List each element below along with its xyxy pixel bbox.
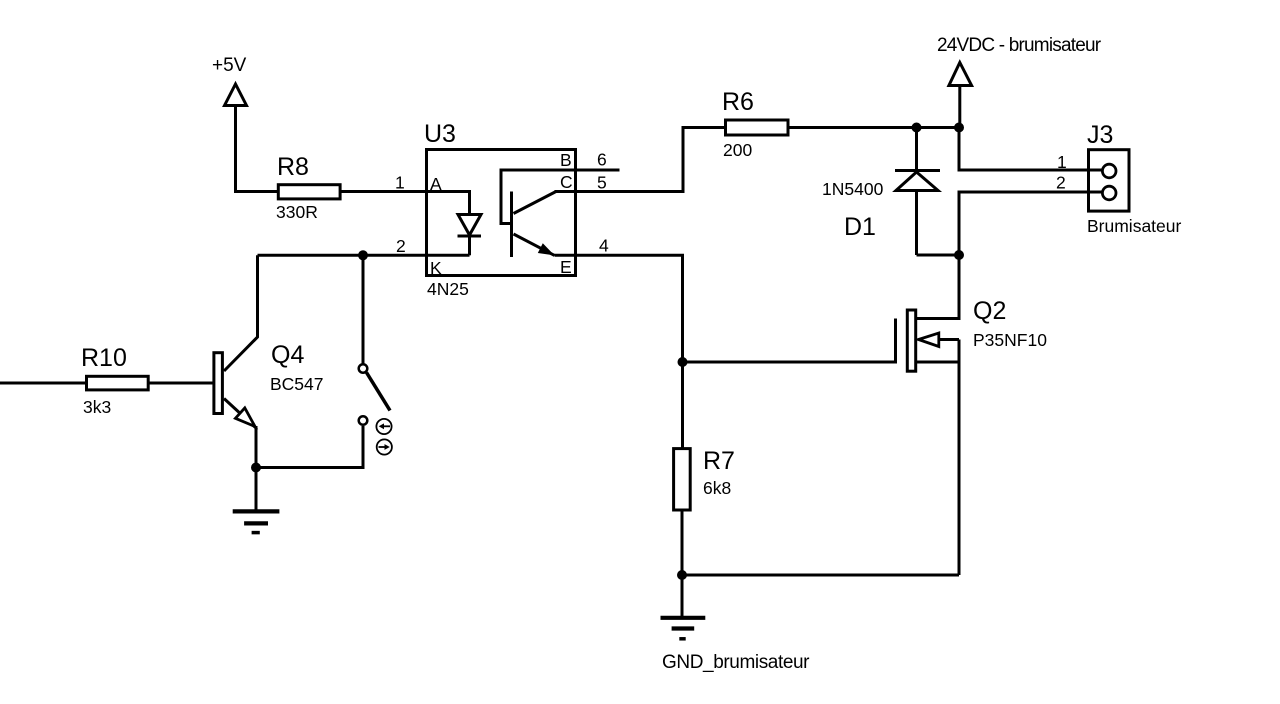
junction dot	[954, 250, 964, 260]
wire emitter node to ground	[255, 468, 258, 510]
wire R7 to ground rail	[681, 509, 684, 616]
emitter arrowhead	[538, 243, 555, 255]
svg-text:24VDC - brumisateur: 24VDC - brumisateur	[937, 35, 1102, 56]
svg-text:+5V: +5V	[212, 55, 247, 76]
svg-text:1: 1	[1057, 152, 1067, 172]
wire input to R10	[0, 382, 88, 385]
transistor Q4 base bar	[214, 353, 223, 414]
svg-text:R6: R6	[722, 88, 754, 116]
switch lever	[367, 373, 391, 411]
junction dot gate node	[678, 357, 688, 367]
U3 phototransistor collector	[514, 192, 557, 214]
Q4 emitter arrowhead	[235, 408, 255, 427]
resistor R8	[278, 185, 340, 199]
wire U3 pin 2 / K rail	[258, 254, 470, 257]
svg-text:1: 1	[395, 173, 405, 193]
junction dot ground rail	[677, 570, 687, 580]
resistor R6	[726, 120, 789, 135]
switch wire to emitter rail	[258, 426, 363, 468]
J3 pad circle 2	[1102, 186, 1116, 200]
svg-text:6: 6	[597, 150, 607, 170]
J3 pad circle 1	[1102, 164, 1116, 178]
junction dot K rail / switch	[358, 250, 368, 260]
switch SW1 wire from K rail	[362, 255, 365, 363]
U3 phototransistor base loop (pin 6 / B)	[501, 170, 620, 224]
svg-text:BC547: BC547	[270, 374, 324, 394]
U3 phototransistor base bar	[510, 192, 513, 258]
junction dot emitter node	[251, 463, 261, 473]
switch actuator arrow circle left	[376, 419, 391, 434]
wire R8 to U3 pin 1	[342, 190, 427, 193]
svg-text:B: B	[560, 150, 572, 170]
Q4 emitter wire down	[255, 426, 258, 469]
svg-text:330R: 330R	[276, 202, 318, 222]
svg-text:R7: R7	[703, 447, 735, 475]
bottom ground rail wire	[682, 574, 959, 577]
Q4 emitter	[224, 399, 256, 429]
svg-text:P35NF10: P35NF10	[973, 330, 1047, 350]
svg-text:U3: U3	[424, 120, 456, 148]
svg-text:3k3: 3k3	[83, 397, 111, 417]
mosfet Q2	[896, 255, 960, 575]
svg-text:200: 200	[723, 140, 752, 160]
resistor R10	[87, 376, 149, 390]
svg-text:5: 5	[597, 173, 607, 193]
wire to J3 pin 2	[959, 192, 1105, 256]
ground symbol GND_brumisateur	[661, 618, 706, 639]
svg-text:K: K	[430, 258, 442, 278]
svg-text:Q4: Q4	[271, 341, 304, 369]
svg-text:Brumisateur: Brumisateur	[1087, 216, 1182, 236]
ground symbol (Q4 emitter)	[233, 511, 280, 532]
wire gate node down to R7	[681, 362, 684, 450]
junction dot	[912, 123, 922, 133]
svg-text:GND_brumisateur: GND_brumisateur	[662, 652, 810, 673]
wire R10 to Q4 base	[148, 382, 214, 385]
optocoupler U3 box	[427, 150, 576, 276]
switch top contact circle	[359, 364, 368, 373]
svg-text:4N25: 4N25	[427, 279, 469, 299]
U3 internal anode wire	[426, 192, 470, 216]
U3 phototransistor emitter	[514, 234, 555, 255]
Q2 body-diode arrow	[919, 333, 939, 347]
svg-text:R8: R8	[277, 153, 309, 181]
24VDC power symbol	[949, 63, 972, 128]
Q4 collector	[224, 255, 258, 371]
svg-text:Q2: Q2	[973, 297, 1006, 325]
U3 LED diode	[458, 215, 482, 256]
svg-text:R10: R10	[81, 344, 127, 372]
wire +5V to R8	[234, 190, 278, 193]
switch actuator arrow circle right	[377, 439, 392, 454]
junction dot	[954, 123, 964, 133]
resistor R7	[674, 449, 691, 510]
svg-text:2: 2	[396, 236, 406, 256]
switch bottom contact circle	[359, 416, 368, 425]
svg-text:6k8: 6k8	[703, 478, 731, 498]
svg-text:A: A	[430, 174, 442, 194]
svg-text:1N5400: 1N5400	[822, 179, 884, 199]
wire to J3 pin 1	[959, 128, 1105, 171]
svg-text:2: 2	[1056, 173, 1066, 193]
svg-text:C: C	[560, 172, 573, 192]
svg-text:4: 4	[599, 236, 609, 256]
+5V power symbol	[225, 84, 247, 192]
svg-text:D1: D1	[844, 213, 876, 241]
svg-text:J3: J3	[1087, 121, 1113, 149]
wire U3 pin 5 to R6	[555, 128, 728, 192]
connector J3 box	[1089, 150, 1130, 211]
emitter node rail	[256, 466, 365, 469]
wire U3 pin 4 to gate node	[555, 255, 898, 362]
diode D1	[895, 128, 959, 256]
svg-text:E: E	[560, 257, 572, 277]
wire R6 to 24V rail	[788, 126, 961, 129]
